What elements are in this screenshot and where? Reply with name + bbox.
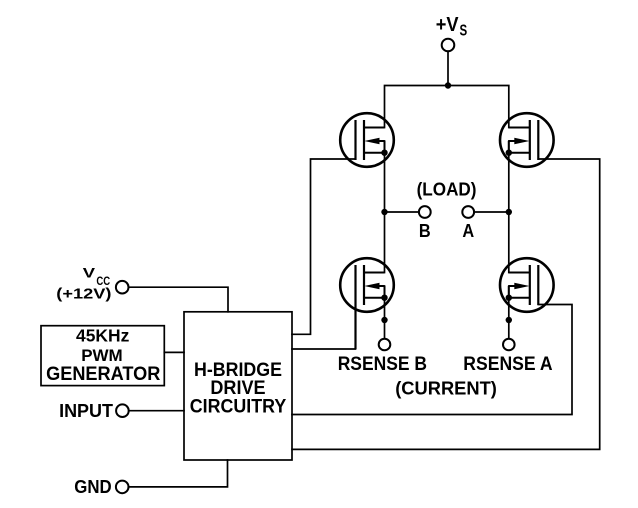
svg-text:GND: GND <box>74 477 111 497</box>
svg-text:B: B <box>419 220 431 241</box>
svg-text:(+12V): (+12V) <box>56 286 111 302</box>
terminal INPUT <box>116 404 129 417</box>
svg-text:(LOAD): (LOAD) <box>417 180 477 200</box>
wire M2 gate to drive box <box>292 159 600 449</box>
svg-text:S: S <box>460 23 468 40</box>
wire load rail left to terminal B <box>385 211 419 213</box>
wire GND to drive box <box>129 460 228 487</box>
terminal RSENSE A <box>503 339 515 351</box>
terminal +VS <box>442 39 455 52</box>
box U2: H-bridge drive circuitry <box>184 312 292 460</box>
wire M4 gate to drive box <box>292 305 572 415</box>
svg-text:RSENSE B: RSENSE B <box>338 354 427 375</box>
wire M1 gate to drive box <box>292 159 356 334</box>
svg-text:A: A <box>462 220 474 241</box>
svg-text:GENERATOR: GENERATOR <box>46 363 160 385</box>
wire INPUT to drive box <box>129 410 184 412</box>
junction RSENSE B sense tap <box>381 317 387 323</box>
terminal RSENSE B <box>379 339 391 351</box>
wire load rail right to terminal A <box>474 211 509 213</box>
wire VCC to drive box <box>129 287 229 312</box>
transistor M3 (bottom-left N-MOSFET) <box>340 258 394 349</box>
wire top supply rail <box>385 86 509 128</box>
svg-text:PWM: PWM <box>81 346 123 365</box>
terminal GND <box>116 481 129 494</box>
svg-text:V: V <box>83 265 96 281</box>
junction +VS rail node <box>445 82 451 88</box>
terminal VCC <box>116 281 129 294</box>
svg-text:INPUT: INPUT <box>59 401 113 421</box>
junction load rail right (node A) <box>506 209 512 215</box>
svg-text:RSENSE A: RSENSE A <box>463 354 553 375</box>
transistor M4 (bottom-right N-MOSFET, mirrored) <box>500 258 554 312</box>
transistor M1 (top-left N-MOSFET) <box>340 113 394 167</box>
wire left half-bridge mid (M1 source to M3 drain) <box>384 141 386 273</box>
junction RSENSE A sense tap <box>506 317 512 323</box>
wire right half-bridge mid (M2 source to M4 drain) <box>508 141 510 273</box>
wire M3 gate to drive box <box>292 305 356 349</box>
box U1: 45KHz PWM generator <box>41 326 164 386</box>
wire M4 source to RSENSE A terminal <box>508 286 510 339</box>
terminal B (load) <box>419 206 431 218</box>
svg-text:CIRCUITRY: CIRCUITRY <box>190 396 287 417</box>
transistor M2 (top-right N-MOSFET, mirrored) <box>500 113 554 167</box>
wire +VS stem <box>447 51 449 85</box>
wire PWM generator to drive box <box>164 351 184 353</box>
junction load rail left (node B) <box>381 209 387 215</box>
wire M3 source to RSENSE B terminal <box>384 286 386 339</box>
svg-text:45KHz: 45KHz <box>76 326 130 346</box>
terminal A (load) <box>462 206 474 218</box>
svg-text:+V: +V <box>436 14 459 36</box>
svg-text:(CURRENT): (CURRENT) <box>395 378 497 399</box>
